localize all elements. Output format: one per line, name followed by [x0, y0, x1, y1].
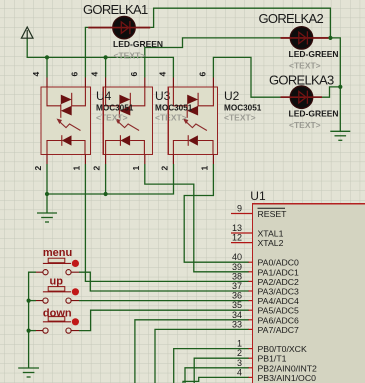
svg-text:33: 33	[232, 319, 242, 329]
wire U3 pin1 to MCU pin39	[145, 164, 249, 272]
pin names	[258, 208, 318, 383]
svg-text:2: 2	[237, 348, 242, 358]
svg-text:<TEXT>: <TEXT>	[114, 51, 146, 61]
node junction D3 branch	[338, 85, 342, 89]
ground buttons	[18, 368, 39, 377]
node junction bus-U4	[45, 55, 49, 59]
svg-text:1: 1	[71, 166, 81, 171]
wire U4 pin6 to D1	[85, 27, 88, 77]
svg-text:9: 9	[237, 204, 242, 214]
svg-text:XTAL2: XTAL2	[258, 238, 284, 248]
svg-text:2: 2	[92, 166, 102, 171]
label U4	[96, 89, 134, 123]
node junction D2 anode	[328, 36, 332, 40]
svg-text:PA3/ADC3: PA3/ADC3	[258, 287, 300, 297]
wire D3 right to junction	[322, 87, 340, 97]
svg-text:12: 12	[232, 233, 242, 243]
svg-text:U1: U1	[250, 189, 266, 203]
button down	[36, 308, 79, 334]
svg-text:RESET: RESET	[258, 209, 288, 219]
svg-text:LED-GREEN: LED-GREEN	[113, 39, 163, 49]
svg-text:<TEXT>: <TEXT>	[96, 113, 128, 123]
node junction rail up	[27, 299, 31, 303]
wire up button to MCU pin36	[79, 300, 249, 302]
svg-text:1: 1	[199, 166, 209, 171]
svg-text:38: 38	[232, 271, 242, 281]
wire MCU pin1 down off-sheet	[174, 349, 249, 383]
svg-text:MOC3051: MOC3051	[224, 104, 262, 113]
svg-text:PA2/ADC2: PA2/ADC2	[258, 277, 300, 287]
wire power bus	[27, 38, 173, 78]
wire MCU pin2 down off-sheet	[194, 358, 249, 383]
svg-text:XTAL1: XTAL1	[258, 229, 284, 239]
wire U2 pin6 to D3	[213, 57, 280, 97]
svg-text:GORELKA2: GORELKA2	[259, 11, 324, 26]
LED D2 GORELKA2	[259, 11, 339, 71]
pin numbers	[232, 204, 242, 378]
pin number labels optos	[31, 72, 209, 171]
button menu	[36, 247, 79, 275]
svg-text:34: 34	[232, 310, 242, 320]
svg-text:up: up	[50, 275, 64, 287]
svg-text:PA7/ADC7: PA7/ADC7	[258, 325, 300, 335]
svg-text:PB1/T1: PB1/T1	[258, 354, 287, 364]
LED D3 GORELKA3	[269, 73, 339, 130]
ground right	[330, 131, 350, 140]
svg-text:6: 6	[129, 72, 139, 77]
svg-text:1: 1	[131, 166, 141, 171]
svg-text:6: 6	[69, 72, 79, 77]
node junction rail U4 pin2	[45, 192, 49, 196]
label U2	[224, 89, 262, 123]
svg-text:4: 4	[90, 72, 100, 77]
svg-text:PA6/ADC6: PA6/ADC6	[258, 315, 300, 325]
svg-text:13: 13	[232, 223, 242, 233]
node junction bus-U3	[104, 55, 108, 59]
svg-text:U2: U2	[224, 89, 240, 103]
svg-text:37: 37	[232, 281, 242, 291]
svg-text:PB2/AIN0/INT2: PB2/AIN0/INT2	[258, 363, 318, 373]
wire U3 pin6 to D2	[145, 38, 281, 78]
wire menu button to MCU pin37	[79, 272, 249, 291]
optocoupler U2	[168, 78, 218, 165]
wire MCU pin4 down off-sheet	[183, 377, 249, 383]
svg-text:MOC3051: MOC3051	[155, 104, 193, 113]
svg-text:GORELKA3: GORELKA3	[269, 73, 334, 88]
svg-text:<TEXT>: <TEXT>	[289, 120, 321, 130]
ground left rail	[37, 194, 57, 222]
svg-text:PA5/ADC5: PA5/ADC5	[258, 306, 300, 316]
svg-text:menu: menu	[43, 247, 72, 259]
power terminal arrow	[21, 27, 33, 38]
svg-text:LED-GREEN: LED-GREEN	[289, 49, 339, 59]
node junction rail U3 pin2	[104, 192, 108, 196]
svg-text:PA4/ADC4: PA4/ADC4	[258, 296, 300, 306]
svg-text:<TEXT>: <TEXT>	[224, 113, 256, 123]
wire U4 pin1 to MCU pin38	[85, 164, 249, 281]
svg-text:35: 35	[232, 300, 242, 310]
svg-text:36: 36	[232, 291, 242, 301]
svg-text:4: 4	[31, 72, 41, 77]
svg-text:<TEXT>: <TEXT>	[155, 113, 187, 123]
svg-text:40: 40	[232, 252, 242, 262]
optocoupler U3	[103, 78, 153, 165]
optocoupler U4	[41, 78, 91, 165]
svg-text:PA1/ADC1: PA1/ADC1	[258, 267, 300, 277]
svg-text:PB3/AIN1/OC0: PB3/AIN1/OC0	[258, 373, 317, 383]
svg-text:1: 1	[237, 339, 242, 349]
svg-text:PA0/ADC0: PA0/ADC0	[258, 258, 300, 268]
svg-text:MOC3051: MOC3051	[96, 104, 134, 113]
node junction rail down	[27, 329, 31, 333]
svg-text:2: 2	[160, 166, 170, 171]
svg-text:2: 2	[33, 166, 43, 171]
svg-text:4: 4	[237, 367, 242, 377]
svg-text:3: 3	[237, 358, 242, 368]
svg-text:GORELKA1: GORELKA1	[83, 2, 148, 17]
label U3	[155, 89, 193, 123]
wire D1 right to D2 junction to ground rail	[150, 8, 340, 131]
svg-text:6: 6	[197, 72, 207, 77]
button up	[36, 275, 79, 303]
wire down button to MCU pin35	[79, 310, 249, 330]
wire MCU pin34 down off-sheet	[135, 320, 249, 383]
wire U2 pin1 to MCU pin40	[184, 164, 249, 262]
LED D1 GORELKA1	[83, 2, 163, 61]
wire button common rail	[29, 272, 36, 368]
svg-text:<TEXT>: <TEXT>	[289, 61, 321, 71]
svg-text:PB0/T0/XCK: PB0/T0/XCK	[258, 344, 307, 354]
svg-text:39: 39	[232, 262, 242, 272]
wire MCU pin33 down off-sheet	[155, 329, 249, 383]
svg-text:LED-GREEN: LED-GREEN	[289, 109, 339, 119]
svg-text:4: 4	[157, 72, 167, 77]
wire overlay box edges	[104, 87, 169, 155]
MCU U1	[231, 189, 365, 383]
pin stubs	[231, 214, 253, 378]
wire cathode ground rail	[47, 164, 174, 194]
wire MCU pin3 down off-sheet	[185, 368, 249, 383]
